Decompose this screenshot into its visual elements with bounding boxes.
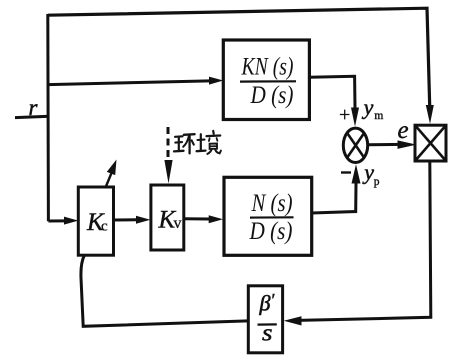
wire e output of summing junction <box>367 143 402 146</box>
svg-text:p: p <box>374 176 380 188</box>
arrowhead into Kv top (environment input) <box>164 160 172 184</box>
wire Kv output to N block <box>184 217 209 220</box>
svg-text:y: y <box>362 94 374 119</box>
arrowhead into Kv left <box>136 216 150 224</box>
wire Kc input from left riser <box>48 219 64 222</box>
summing junction (circle with X) <box>343 128 367 162</box>
label ym <box>362 94 384 122</box>
label minus sign <box>341 171 351 173</box>
wire Kc bottom feedback to beta block <box>81 255 248 326</box>
wire KN output to summing junction <box>309 76 355 108</box>
svg-text:D (s): D (s) <box>249 218 293 245</box>
svg-text:c: c <box>101 219 108 235</box>
wire Kc output to Kv <box>114 218 137 221</box>
arrowhead into summing junction top <box>351 108 359 127</box>
block Kc (adjustable controller gain) <box>78 187 113 255</box>
block N(s)/D(s) (process) <box>224 177 312 255</box>
svg-text:D (s): D (s) <box>250 82 294 109</box>
label environment (huanjing) character 2 <box>197 131 221 154</box>
wire branch to KN block <box>48 81 210 85</box>
arrowhead into N block left <box>209 215 223 223</box>
wire top feedback (left riser to top-right corner and down) <box>48 8 430 106</box>
svg-text:s: s <box>262 321 273 347</box>
block beta'/s (integrator feedback) <box>248 286 282 353</box>
arrowhead into multiplier left <box>398 140 417 149</box>
arrowhead into Kc left <box>64 217 78 225</box>
svg-text:β: β <box>259 291 271 316</box>
svg-text:+: + <box>339 104 350 126</box>
svg-text:m: m <box>374 110 383 122</box>
wire multiplier output down to beta block <box>298 161 431 320</box>
dashed disturbance wire into Kv top <box>167 127 170 159</box>
svg-text:v: v <box>174 215 182 232</box>
svg-text:′: ′ <box>272 290 276 310</box>
label + (plus sign) <box>339 104 350 126</box>
multiplier block (square with X) <box>415 125 446 161</box>
svg-text:N (s): N (s) <box>251 190 293 217</box>
svg-text:e: e <box>398 117 409 144</box>
svg-text:KN (s): KN (s) <box>241 54 294 81</box>
arrowhead into summing junction bottom <box>352 164 361 183</box>
wire N block output up to summing junction <box>312 184 356 214</box>
block KN(s)/D(s) (reference model) <box>223 40 309 120</box>
svg-text:r: r <box>29 95 39 120</box>
svg-text:y: y <box>362 160 374 185</box>
label r <box>29 95 39 120</box>
arrowhead into multiplier top <box>426 105 434 124</box>
node r input wire <box>15 116 50 117</box>
wire left vertical riser <box>46 14 50 221</box>
arrowhead into KN block <box>209 77 223 85</box>
label e <box>398 117 409 144</box>
arrowhead into beta block right <box>284 316 302 325</box>
label environment (huanjing) character 1 <box>174 134 195 153</box>
adjustment diagonal arrow on Kc <box>106 160 117 188</box>
label yp <box>362 160 380 188</box>
block Kv (valve gain) <box>151 185 184 250</box>
